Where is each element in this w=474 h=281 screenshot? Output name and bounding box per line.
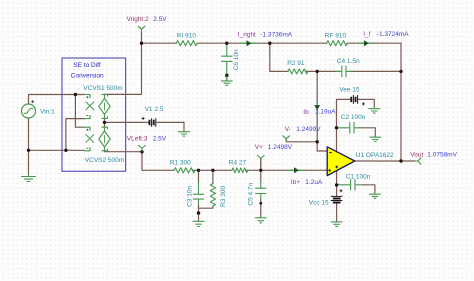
node dot V+ node (259, 169, 262, 172)
resistor RF (327, 41, 348, 46)
svg-text:V1 2.5: V1 2.5 (145, 106, 164, 113)
node dot inverting node (316, 140, 319, 143)
node dot output (399, 159, 402, 162)
wire R2 to node (306, 70, 339, 72)
wire output (355, 160, 416, 162)
svg-text:U1 OPA1622: U1 OPA1622 (356, 152, 394, 159)
capacitor C1 (351, 180, 355, 190)
node dot C6 ground (225, 74, 229, 78)
capacitor C2 (350, 123, 354, 133)
svg-text:C4 1.5n: C4 1.5n (337, 58, 360, 65)
wire riser to VCVS1 minus (66, 119, 84, 151)
ground for C3 R3 (193, 221, 204, 226)
battery Vcc vertical (331, 189, 343, 202)
capacitor C3 (193, 194, 203, 199)
VCVS2 output diamond (99, 127, 110, 151)
svg-text:V-: V- (285, 126, 291, 133)
wire R3 top lead (212, 170, 214, 183)
VCVS1 input port (84, 95, 94, 119)
resistor R1 (174, 168, 195, 173)
svg-text:C3 10n: C3 10n (186, 186, 193, 207)
svg-text:VCVS1 500m: VCVS1 500m (83, 85, 122, 92)
testpoint Y V+ (257, 155, 264, 161)
svg-text:R4 27: R4 27 (229, 160, 247, 167)
VCVS1 output diamond (99, 95, 110, 119)
svg-text:1.2499V: 1.2499V (296, 126, 321, 133)
wire C2 right to ground (360, 128, 376, 137)
svg-text:Vright:2: Vright:2 (127, 16, 150, 23)
svg-text:Ib+: Ib+ (291, 179, 300, 186)
wire C1 left lead (338, 184, 350, 186)
ammeter I_f (359, 42, 374, 44)
ground for C1 (369, 194, 380, 198)
node dot R2 C4 junction (316, 70, 319, 73)
capacitor C5 (256, 188, 266, 193)
wire Vin top to VCVS inputs (29, 95, 85, 105)
node dot Vright rail (140, 42, 143, 45)
wire branch to VCVS2 plus (75, 95, 84, 128)
wire Vee battery to ground (358, 99, 374, 107)
wire RF to I_f probe (347, 42, 359, 44)
svg-text:C6 10n: C6 10n (233, 49, 240, 70)
wire to inverting input (317, 142, 327, 151)
ground for C5 (255, 218, 266, 223)
wire top rail to feedback corner (374, 42, 402, 44)
svg-text:V+: V+ (255, 144, 263, 151)
wire C1 right to ground (363, 185, 375, 194)
node dot C6 tap (225, 42, 228, 45)
resistor R3 vertical (210, 184, 215, 206)
wire rail3 R4 to probe (246, 169, 289, 171)
wire top rail mid (197, 42, 240, 44)
ammeter Ib- vertical (316, 101, 318, 115)
wire C5 stem (260, 158, 262, 182)
ground under Vin (22, 173, 36, 181)
svg-text:Vee 15: Vee 15 (339, 86, 360, 93)
svg-text:2.5V: 2.5V (153, 16, 167, 23)
node dot Vin plus (74, 93, 77, 96)
wire Vee battery left (337, 98, 350, 100)
wire C2 left lead (338, 127, 349, 129)
node dot C3 ground (197, 211, 201, 215)
svg-text:RI 910: RI 910 (177, 33, 197, 40)
node dot Vcc tap (335, 183, 338, 186)
wire V1 to ground (157, 122, 184, 131)
ground for Vcc (331, 222, 342, 227)
ammeter Ib+ (289, 169, 305, 171)
svg-text:Vout: Vout (410, 152, 423, 159)
svg-text:-1.3724mA: -1.3724mA (377, 31, 409, 38)
wire C6 stem (226, 44, 228, 81)
svg-text:R3 300: R3 300 (220, 186, 227, 207)
node dot C5 ground stem (259, 202, 262, 205)
wire Vin- rail (29, 149, 85, 151)
node dot R3 tap (211, 169, 214, 172)
resistor R2 (288, 69, 308, 74)
wire top rail right of probe (257, 42, 327, 44)
node dot Vin minus (27, 149, 30, 152)
capacitor C6 (222, 56, 232, 61)
svg-text:VLeft:3: VLeft:3 (127, 136, 148, 143)
svg-text:R1 300: R1 300 (170, 160, 191, 167)
wire C2 right lead (355, 127, 360, 129)
svg-text:R2 91: R2 91 (287, 60, 305, 67)
wire rail3 R1 to R4 (193, 169, 232, 171)
battery V1 (142, 117, 156, 127)
wire inverting riser (316, 71, 318, 141)
svg-text:-1.3736mA: -1.3736mA (260, 31, 292, 38)
wire VCVS2 out- to VLeft (105, 150, 143, 153)
svg-text:C1 100n: C1 100n (346, 173, 371, 180)
wire drop to rail2 (270, 43, 288, 71)
node dot VLeft (140, 150, 143, 153)
wire Vee riser supply (336, 99, 338, 152)
ground for C2 (370, 137, 381, 141)
wire top rail left (142, 42, 177, 44)
op-amp U1 OPA1622 (327, 147, 355, 176)
VCVS2 input port (84, 127, 94, 151)
svg-text:I_right: I_right (238, 31, 256, 38)
node dot riser tap (64, 149, 67, 152)
ground for V1 (179, 132, 190, 136)
battery Vee (351, 95, 365, 105)
voltage source Vin:1 (22, 100, 36, 118)
svg-text:1.0758mV: 1.0758mV (427, 152, 457, 159)
wire C3 stem (198, 170, 200, 182)
ammeter I_right (241, 42, 257, 44)
wire V+ testpoint stem (260, 158, 262, 170)
svg-text:VCVS2 500m: VCVS2 500m (85, 157, 124, 164)
wire common to V1 (105, 121, 149, 123)
resistor RI (176, 41, 197, 46)
svg-text:C2 100n: C2 100n (341, 114, 366, 121)
node dot Vee tap (335, 126, 338, 129)
node dot C3 tap (197, 169, 200, 172)
capacitor C4 (336, 66, 353, 77)
svg-text:RF 910: RF 910 (325, 33, 347, 40)
testpoint Y Vright (138, 26, 145, 32)
svg-text:Vcc 15: Vcc 15 (309, 200, 329, 207)
svg-text:Conversion: Conversion (71, 73, 104, 80)
svg-text:1.19uA: 1.19uA (315, 109, 336, 116)
node dot rail2 drop (268, 42, 271, 45)
wire Vin bottom (28, 118, 30, 173)
wire Vcc battery to ground (336, 203, 338, 221)
svg-text:1.2498V: 1.2498V (268, 144, 293, 151)
wire C1 right lead (356, 184, 363, 186)
resistor R4 (232, 168, 248, 173)
svg-text:2.5V: 2.5V (153, 136, 167, 143)
wire VCVS1 out- to common (104, 118, 106, 127)
SE to Diff conversion box (62, 58, 126, 171)
node dot feedback rail2 (399, 70, 402, 73)
wire R3 bottom link (199, 206, 213, 208)
wire C4 right to feedback (349, 70, 401, 72)
svg-text:C5 4.7n: C5 4.7n (247, 182, 254, 205)
wire V- testpoint link (286, 139, 317, 142)
svg-text:SE to Diff: SE to Diff (73, 62, 101, 69)
wire feedback vertical (400, 43, 402, 161)
ground under C6 (221, 76, 232, 85)
svg-text:1.2uA: 1.2uA (305, 179, 323, 186)
wire VLeft drop to rail3 (142, 152, 174, 171)
svg-text:I_f: I_f (363, 31, 370, 38)
wire bottom supply pin (336, 171, 338, 196)
testpoint Y Vout (415, 158, 421, 164)
svg-text:Ib: Ib (303, 109, 309, 116)
ground for Vee (369, 109, 380, 113)
testpoint Y VLeft (139, 145, 146, 151)
wire probe to noninverting input (304, 169, 327, 171)
testpoint Y V- (283, 136, 290, 142)
svg-text:Vin:1: Vin:1 (40, 108, 55, 115)
wire Vright stem to VCVS1 out+ (105, 32, 142, 96)
node dot VCVS common (103, 121, 106, 124)
